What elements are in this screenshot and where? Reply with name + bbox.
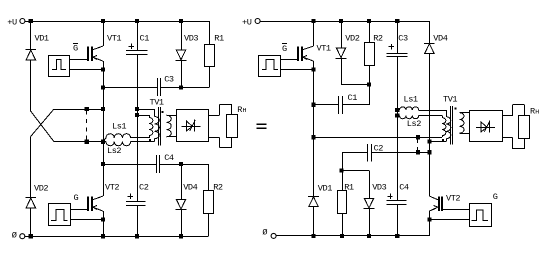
svg-text:R1: R1 [214,34,224,44]
svg-text:R1: R1 [344,183,354,193]
svg-text:VD2: VD2 [345,34,359,44]
svg-text:Ls1: Ls1 [404,94,418,104]
svg-text:G: G [74,193,79,203]
svg-text:Ls2: Ls2 [407,119,421,129]
svg-text:VD4: VD4 [433,34,447,44]
svg-text:Ls2: Ls2 [107,146,121,156]
svg-text:G: G [73,44,78,54]
svg-text:н: н [535,108,539,116]
svg-text:R2: R2 [213,182,223,192]
svg-text:R2: R2 [373,34,383,44]
svg-text:+U: +U [242,18,252,28]
svg-text:VD1: VD1 [318,183,332,193]
svg-text:C1: C1 [348,93,358,103]
svg-text:VD2: VD2 [34,183,48,193]
svg-text:TV1: TV1 [443,95,457,105]
svg-text:VT2: VT2 [446,193,460,203]
svg-text:VD1: VD1 [35,34,49,44]
svg-text:C2: C2 [139,182,149,192]
svg-text:Ø: Ø [262,227,267,237]
svg-text:C2: C2 [374,143,384,153]
svg-text:н: н [242,107,246,115]
svg-text:VD3: VD3 [184,34,198,44]
svg-text:VT1: VT1 [107,34,121,44]
svg-text:G: G [493,192,498,202]
svg-text:VD4: VD4 [183,182,197,192]
svg-text:C1: C1 [140,34,150,44]
svg-text:G: G [282,44,287,54]
svg-text:VD3: VD3 [372,183,386,193]
svg-text:C3: C3 [398,34,408,44]
svg-text:TV1: TV1 [150,97,164,107]
svg-text:Ls1: Ls1 [112,122,126,132]
svg-text:VT1: VT1 [317,44,331,54]
svg-text:C4: C4 [399,182,409,192]
svg-text:+U: +U [7,18,17,28]
svg-text:C4: C4 [164,153,174,163]
svg-text:C3: C3 [164,74,174,84]
svg-text:Ø: Ø [12,230,17,240]
svg-text:VT2: VT2 [105,182,119,192]
